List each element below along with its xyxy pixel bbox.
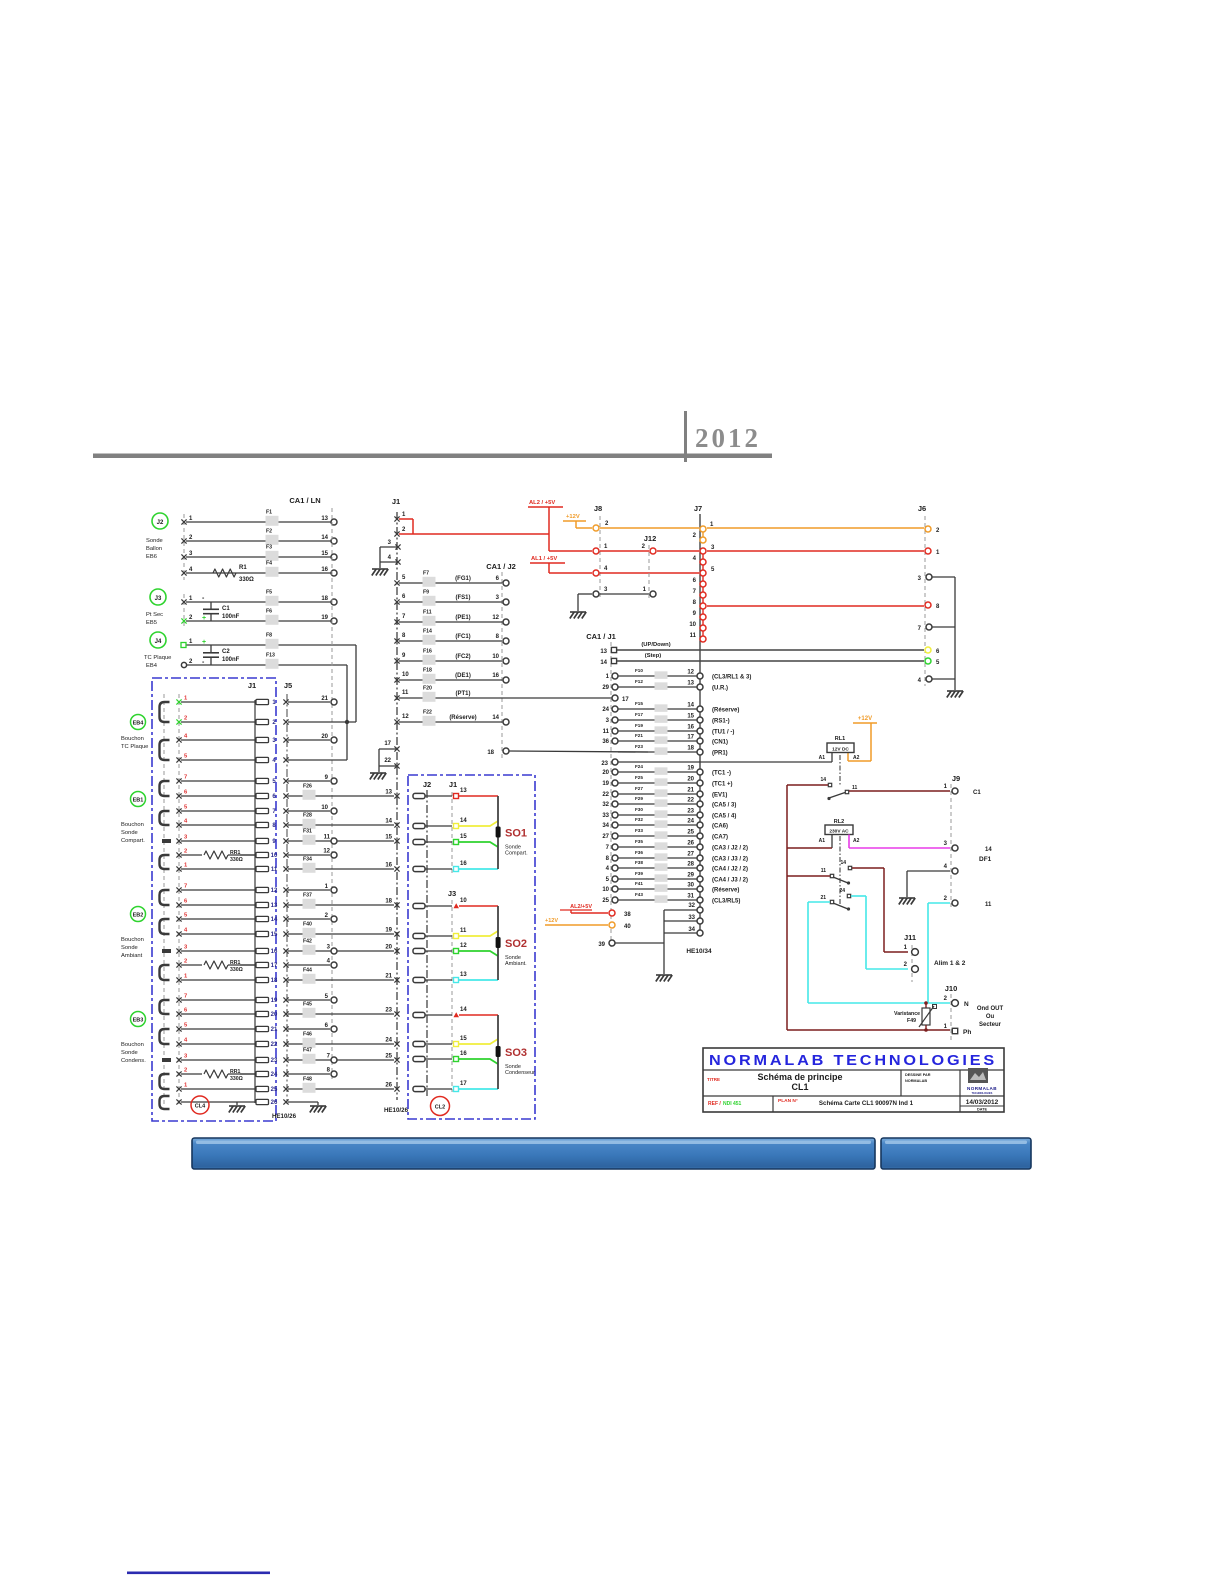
svg-text:F3: F3 <box>266 545 272 551</box>
svg-text:TC Plaque: TC Plaque <box>144 655 171 661</box>
bouchon J1 row pin 19 <box>181 999 255 1001</box>
sonde SO3 trunk <box>497 1015 499 1089</box>
svg-text:15: 15 <box>460 834 467 840</box>
wire J8 pin3 to J12 pin1 <box>600 593 649 595</box>
svg-text:EB1: EB1 <box>133 798 144 804</box>
sonde J2 pin row 13 <box>413 977 425 982</box>
wire J1 pin 12 (Réserve) <box>399 721 502 723</box>
svg-text:F14: F14 <box>423 629 432 635</box>
svg-text:29: 29 <box>602 685 609 691</box>
wire J5 row pin 7 <box>283 808 288 813</box>
svg-text:10: 10 <box>689 622 696 628</box>
wire J5 row pin 4 <box>283 757 288 762</box>
wire RL2 A2 magenta to J9 pin3 <box>848 835 850 849</box>
svg-text:EB4: EB4 <box>133 721 145 727</box>
svg-text:34: 34 <box>688 927 695 933</box>
svg-text:F24: F24 <box>635 764 643 769</box>
connector J4 circle <box>150 632 166 648</box>
svg-text:F13: F13 <box>266 653 275 659</box>
svg-text:J9: J9 <box>952 774 960 783</box>
node J8 pin 1 <box>593 548 599 554</box>
svg-text:27: 27 <box>687 852 694 858</box>
svg-text:(U.R.): (U.R.) <box>712 686 728 692</box>
wire RL2 A1 <box>831 835 833 849</box>
svg-text:CA1 / J2: CA1 / J2 <box>486 562 516 571</box>
svg-text:14: 14 <box>985 847 992 853</box>
svg-text:Sonde: Sonde <box>146 538 163 544</box>
svg-text:CA1 / J1: CA1 / J1 <box>586 632 616 641</box>
wire J5 row pin 25 <box>283 1086 288 1091</box>
wire J5 row pin 16 <box>283 948 288 953</box>
ground (J9 pin4) <box>899 897 915 899</box>
svg-text:F7: F7 <box>423 571 429 577</box>
svg-text:25: 25 <box>687 830 694 836</box>
wire J8 pin3 to ground <box>578 593 592 595</box>
svg-text:23: 23 <box>687 809 694 815</box>
svg-text:HE10/34: HE10/34 <box>686 948 712 955</box>
svg-text:14: 14 <box>492 715 499 721</box>
node J12 pin 1 <box>650 591 656 597</box>
fuse F16 <box>423 655 436 665</box>
connector J1 dashed line (sonde) <box>451 792 453 874</box>
svg-text:22: 22 <box>271 1042 278 1048</box>
svg-text:A1: A1 <box>819 755 826 761</box>
fuse F23 <box>655 747 668 755</box>
wire J8 pin2 to J7 pin1 <box>600 527 699 529</box>
svg-text:24: 24 <box>271 1072 278 1078</box>
svg-text:13: 13 <box>460 788 467 794</box>
svg-text:A2: A2 <box>853 838 860 844</box>
connector EB1 circle <box>131 792 146 807</box>
sonde J2 pin row 11 <box>413 933 425 938</box>
bouchon J1 row pin 23 <box>181 1059 255 1061</box>
svg-text:(Réserve): (Réserve) <box>712 888 739 894</box>
wire +12V to RL1 A2 <box>870 723 872 761</box>
fuse F28 <box>303 819 316 829</box>
svg-text:F20: F20 <box>423 686 432 692</box>
svg-text:25: 25 <box>385 1054 392 1060</box>
svg-text:F8: F8 <box>266 633 272 639</box>
blue bar small <box>881 1138 1031 1169</box>
svg-text:(UP/Down): (UP/Down) <box>641 642 670 648</box>
bouchon inner dashed line <box>163 694 165 1104</box>
svg-text:25: 25 <box>271 1087 278 1093</box>
svg-text:F12: F12 <box>635 679 643 684</box>
svg-text:(CN1): (CN1) <box>712 740 728 746</box>
bouchon row 26 <box>181 1101 255 1103</box>
svg-text:F32: F32 <box>635 817 643 822</box>
logo NORMALAB <box>968 1068 988 1083</box>
svg-text:20: 20 <box>602 770 609 776</box>
wire CA1/J1 33 F30 (CA5 / 4) <box>618 814 697 816</box>
wire J5 row pin 3 <box>283 737 288 742</box>
fuse F38 <box>655 863 668 871</box>
wire RL2-11 to darkred bus <box>787 875 830 877</box>
svg-text:21: 21 <box>385 974 392 980</box>
bouchon J1 row pin 13 <box>181 904 255 906</box>
wire J5 row pin 2 <box>283 719 288 724</box>
svg-text:12: 12 <box>271 888 278 894</box>
svg-text:40: 40 <box>624 924 631 930</box>
svg-text:2012: 2012 <box>695 423 761 453</box>
svg-text:SO2: SO2 <box>505 938 527 950</box>
node J9 pin 1 C1 <box>952 788 958 794</box>
svg-text:(PR1): (PR1) <box>712 751 728 757</box>
svg-text:14/03/2012: 14/03/2012 <box>966 1099 999 1106</box>
node CA1/J1 pin 40 <box>609 922 615 928</box>
svg-text:F1: F1 <box>266 510 272 516</box>
svg-text:F27: F27 <box>635 786 643 791</box>
connector CA1/LN dashed line <box>331 508 333 1080</box>
wire CA1/J1 10 F41 (Réserve) <box>618 888 697 890</box>
connector EB3 circle <box>131 1012 146 1027</box>
fuse F34 <box>303 863 316 873</box>
wire J3 pin 2 to CA1/LN 19 <box>186 620 331 622</box>
svg-text:21: 21 <box>321 696 328 702</box>
ground (HE10/34) <box>656 974 672 976</box>
svg-text:(Réserve): (Réserve) <box>712 708 739 714</box>
wire J7 pin1 to J6 pin2 <box>707 527 924 529</box>
fuse F26 <box>303 790 316 800</box>
svg-text:+12V: +12V <box>858 716 872 722</box>
svg-text:(CA4 / J2 / 2): (CA4 / J2 / 2) <box>712 867 748 873</box>
wire J7 32/33/34 bus <box>664 909 697 911</box>
svg-text:100nF: 100nF <box>222 614 240 620</box>
svg-text:7: 7 <box>184 775 187 781</box>
fuse F1 <box>266 516 279 526</box>
svg-text:SO1: SO1 <box>505 828 527 840</box>
svg-text:F46: F46 <box>303 1032 312 1038</box>
node J10 pin 2 N <box>952 1000 959 1007</box>
svg-text:22: 22 <box>384 758 391 764</box>
bouchon J1 row pin 10 <box>181 854 255 856</box>
svg-text:F44: F44 <box>303 968 312 974</box>
svg-text:F43: F43 <box>635 892 643 897</box>
bouchon J1 row pin 1 <box>181 701 255 703</box>
wire sonde cyan <box>459 979 498 981</box>
svg-text:CL4: CL4 <box>195 1104 206 1110</box>
svg-text:(FC2): (FC2) <box>455 654 470 660</box>
svg-text:+: + <box>202 615 206 622</box>
svg-text:36: 36 <box>602 739 609 745</box>
svg-text:2: 2 <box>184 1068 187 1074</box>
svg-text:(TC1 -): (TC1 -) <box>712 771 731 777</box>
wire sonde yellow <box>459 821 498 826</box>
wire J5 row pin 23 <box>283 1057 288 1062</box>
svg-text:(CA6): (CA6) <box>712 824 728 830</box>
wire RL1-11 to J9 pin1 <box>849 790 950 792</box>
wire CA1/J1 23 to relay RL1 A1 <box>612 759 618 765</box>
node J9 pin 2 <box>952 900 958 906</box>
node CL4 <box>191 1096 209 1114</box>
svg-text:(DE1): (DE1) <box>455 673 471 679</box>
svg-text:15: 15 <box>385 835 392 841</box>
svg-text:F23: F23 <box>635 744 643 749</box>
sonde SO1 trunk <box>497 796 499 869</box>
fuse F30 <box>655 810 668 818</box>
svg-text:20: 20 <box>687 777 694 783</box>
svg-text:EB6: EB6 <box>146 554 157 560</box>
svg-text:13: 13 <box>321 516 328 522</box>
junction F13 net / J5 row2 <box>345 720 349 724</box>
svg-text:F35: F35 <box>635 839 643 844</box>
wire J5 row pin 24 <box>283 1071 288 1076</box>
wire 39 to ground bus <box>615 942 664 944</box>
svg-text:24: 24 <box>687 819 694 825</box>
svg-text:12: 12 <box>492 615 499 621</box>
wire J2 pin 4 to CA1/LN 16 <box>186 572 331 574</box>
connector CA1/J1 dashed line <box>610 642 612 948</box>
svg-text:13: 13 <box>687 681 694 687</box>
sonde box (blue dash-dot) <box>408 775 535 1119</box>
svg-text:18: 18 <box>687 746 694 752</box>
wire CA1/J1 34 F32 (CA6) <box>618 824 697 826</box>
resistor R1 330ohm <box>213 569 236 577</box>
svg-text:Compart.: Compart. <box>121 838 145 844</box>
wire J9 pin2 cyan <box>928 902 950 904</box>
fuse F40 <box>303 928 316 938</box>
wire J1 pin 11 (PT1) <box>399 697 612 699</box>
bouchon connector bus <box>254 700 256 1103</box>
svg-text:J7: J7 <box>694 504 702 513</box>
svg-text:14: 14 <box>820 777 826 783</box>
svg-text:14: 14 <box>600 660 607 666</box>
svg-text:EB4: EB4 <box>146 663 158 669</box>
bouchon J1 row pin 11 <box>181 868 255 870</box>
svg-text:J4: J4 <box>155 639 162 645</box>
svg-text:+12V: +12V <box>545 918 558 924</box>
svg-text:(PE1): (PE1) <box>455 615 470 621</box>
sonde J2 pin row 10 <box>413 903 425 908</box>
svg-text:14: 14 <box>271 917 278 923</box>
node J6 pin 1 <box>925 548 931 554</box>
fuse F27 <box>655 789 668 797</box>
ground (bouchon) <box>229 1105 245 1107</box>
varistor F49 <box>925 1003 927 1008</box>
svg-text:Condens.: Condens. <box>121 1058 146 1064</box>
svg-text:21: 21 <box>687 788 694 794</box>
bouchon J1 row pin 17 <box>181 964 255 966</box>
wire J1 pin 10 (DE1) <box>399 679 502 681</box>
wire J2 pin 3 to CA1/LN 15 <box>186 556 331 558</box>
svg-text:DF1: DF1 <box>979 856 992 863</box>
svg-text:TITRE: TITRE <box>707 1077 720 1082</box>
ground (J5 row 26) <box>310 1105 326 1107</box>
svg-text:11: 11 <box>324 835 331 841</box>
svg-text:(TC1 +): (TC1 +) <box>712 782 733 788</box>
svg-text:(Step): (Step) <box>645 653 661 659</box>
svg-text:F2: F2 <box>266 529 272 535</box>
svg-text:(CL3/RL1 & 3): (CL3/RL1 & 3) <box>712 675 751 681</box>
wire CA1/J1 19 F25 (TC1 +) <box>618 782 697 784</box>
connector J3 dashed line <box>183 594 185 628</box>
svg-text:14: 14 <box>321 535 328 541</box>
wire J7 pin8 to J6 pin8 <box>707 605 924 607</box>
node CA1/J1 pin 39 <box>609 940 615 946</box>
fuse F24 <box>655 767 668 775</box>
svg-text:14: 14 <box>460 818 467 824</box>
svg-text:18: 18 <box>321 596 328 602</box>
connector J2 circle <box>152 513 168 529</box>
wire J5 row pin 22 <box>283 1041 288 1046</box>
svg-text:15: 15 <box>460 1036 467 1042</box>
node J8 pin 2 <box>593 525 599 531</box>
relay RL2 linkage <box>839 836 841 904</box>
wire CA1/J1 27 F33 (CA7) <box>618 835 697 837</box>
bouchon box J1 (blue dash-dot) <box>152 678 276 1121</box>
sonde J2 pin row 17 <box>413 1086 425 1091</box>
wire J5 row pin 21 <box>283 1026 288 1031</box>
wire F13 net down to J5 row4 <box>346 665 348 760</box>
svg-text:AL2 / +5V: AL2 / +5V <box>529 500 555 506</box>
svg-text:16: 16 <box>460 861 467 867</box>
svg-text:(CA3 / J3 / 2): (CA3 / J3 / 2) <box>712 857 748 863</box>
svg-text:10: 10 <box>602 887 609 893</box>
node J6 pin 7 <box>926 624 932 630</box>
wire sonde cyan <box>459 868 498 870</box>
connector EB2 circle <box>131 907 146 922</box>
fuse F44 <box>303 974 316 984</box>
bouchon J1 row pin 20 <box>181 1013 255 1015</box>
svg-text:F31: F31 <box>303 829 312 835</box>
wire J5 row pin 13 <box>283 902 288 907</box>
svg-text:23: 23 <box>601 761 608 767</box>
bouchon J1 row pin 16 <box>181 950 255 952</box>
svg-text:Ambiant: Ambiant <box>121 953 143 959</box>
svg-text:31: 31 <box>687 894 694 900</box>
svg-text:17: 17 <box>687 735 694 741</box>
svg-text:(CA5 / 3): (CA5 / 3) <box>712 803 736 809</box>
resistor RR1 330ohm <box>202 850 240 860</box>
node J9 pin 3 <box>952 845 958 851</box>
bouchon J1 row pin 2 <box>181 721 255 723</box>
svg-text:16: 16 <box>460 1051 467 1057</box>
wire CA1/J1 4 F38 (CA4 / J2 / 2) <box>618 867 697 869</box>
svg-text:F4: F4 <box>266 561 272 567</box>
fuse F3 <box>266 551 279 561</box>
svg-text:J8: J8 <box>594 504 602 513</box>
svg-text:F10: F10 <box>635 668 643 673</box>
sonde J2 pin row 15 <box>413 839 425 844</box>
bouchon J1 row pin 7 <box>181 810 255 812</box>
bouchon J1 row pin 15 <box>181 933 255 935</box>
svg-text:10: 10 <box>460 898 467 904</box>
wire AL1/+5V to J8 pin 4 <box>548 563 550 573</box>
svg-text:AL2/+5V: AL2/+5V <box>570 904 592 910</box>
wire sonde green <box>459 951 498 956</box>
svg-text:33: 33 <box>602 813 609 819</box>
relay RL1 contact <box>828 783 831 786</box>
svg-text:230V AC: 230V AC <box>829 829 849 835</box>
svg-text:R1: R1 <box>239 565 247 571</box>
wire J7 pin3 to J6 pin1 <box>707 550 924 552</box>
sonde J2 pin row 13 <box>413 793 425 798</box>
wire J5 row pin 5 <box>283 778 288 783</box>
wire J1 pin 5 (FG1) <box>399 582 502 584</box>
svg-text:F38: F38 <box>635 860 643 865</box>
svg-text:Condenseur: Condenseur <box>505 1070 535 1076</box>
connector J3 circle <box>150 589 166 605</box>
relay RL1 linkage <box>839 755 841 786</box>
svg-text:DATE: DATE <box>977 1108 988 1112</box>
svg-text:7: 7 <box>184 994 187 1000</box>
node J12 pin 2 <box>650 548 656 554</box>
svg-text:Ou: Ou <box>986 1014 995 1020</box>
wire RL1 A1 <box>831 753 833 763</box>
wire J5 row pin 20 <box>283 1011 288 1016</box>
svg-text:HE10/26: HE10/26 <box>384 1107 409 1114</box>
svg-text:330Ω: 330Ω <box>230 1076 243 1082</box>
wire CA1/J1 5 F39 (CA4 / J3 / 2) <box>618 878 697 880</box>
bouchon J1 row pin 3 <box>181 739 255 741</box>
svg-text:F37: F37 <box>303 893 312 899</box>
fuse F47 <box>303 1054 316 1064</box>
svg-text:(FS1): (FS1) <box>456 595 471 601</box>
svg-text:J10: J10 <box>945 984 958 993</box>
fuse F15 <box>655 704 668 712</box>
svg-text:Alim 1 & 2: Alim 1 & 2 <box>934 960 966 967</box>
wire J1 pin 6 (FS1) <box>399 601 502 603</box>
bouchon inner dashed line 2 <box>178 694 180 1104</box>
svg-text:J3: J3 <box>448 889 456 898</box>
node J8 pin 4 <box>593 570 599 576</box>
wire RL2-21 cyan to J10 N <box>808 901 830 903</box>
fuse F21 <box>655 736 668 744</box>
svg-text:C1: C1 <box>973 790 981 796</box>
wire J6 pin4 to gnd bus <box>932 678 955 680</box>
wire CA1/J1 32 F29 (CA5 / 3) <box>618 803 697 805</box>
svg-text:F45: F45 <box>303 1002 312 1008</box>
wire CA1/J1 22 F27 (EV1) <box>618 793 697 795</box>
fuse F41 <box>655 884 668 892</box>
svg-text:330Ω: 330Ω <box>239 577 254 583</box>
svg-text:11: 11 <box>402 690 409 696</box>
svg-text:11: 11 <box>985 902 992 908</box>
svg-text:15: 15 <box>687 714 694 720</box>
svg-text:18: 18 <box>271 978 278 984</box>
svg-text:26: 26 <box>687 841 694 847</box>
fuse F22 <box>423 716 436 726</box>
bouchon J1 row pin 22 <box>181 1043 255 1045</box>
wire AL2 to 38 <box>570 910 572 913</box>
svg-text:32: 32 <box>602 802 609 808</box>
svg-text:12V DC: 12V DC <box>832 747 849 753</box>
wire J5 row pin 12 <box>283 887 288 892</box>
wire J8 pin1 to J12 pin2 <box>600 550 649 552</box>
wire AL2 net to J8 pin 1 <box>549 550 592 552</box>
fuse F4 <box>266 567 279 577</box>
svg-text:EB5: EB5 <box>146 620 157 626</box>
svg-text:CL2: CL2 <box>435 1105 445 1111</box>
svg-text:29: 29 <box>687 873 694 879</box>
connector EB4 circle <box>131 715 146 730</box>
svg-text:11: 11 <box>690 633 697 639</box>
bouchon J1 row pin 24 <box>181 1073 255 1075</box>
svg-text:J11: J11 <box>904 933 916 942</box>
capacitor C1 100nF <box>210 602 212 609</box>
svg-text:F25: F25 <box>635 775 643 780</box>
wire F8 net down to J5 row2 <box>355 645 357 722</box>
node CA1/J1 pin 38 <box>609 910 615 916</box>
fuse F14 <box>423 635 436 645</box>
svg-text:Schéma de principe: Schéma de principe <box>757 1072 842 1082</box>
svg-text:11: 11 <box>460 928 467 934</box>
svg-text:F28: F28 <box>303 813 312 819</box>
svg-text:F39: F39 <box>635 871 643 876</box>
svg-text:7: 7 <box>184 884 187 890</box>
svg-text:24: 24 <box>385 1038 392 1044</box>
svg-text:13: 13 <box>460 972 467 978</box>
